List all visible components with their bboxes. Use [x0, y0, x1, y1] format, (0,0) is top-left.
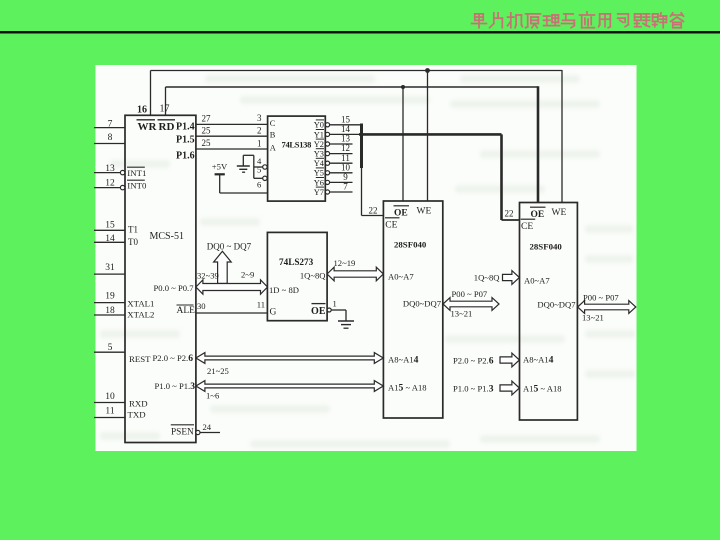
- ground G1: [242, 155, 244, 166]
- wire WR top rail: [151, 70, 563, 72]
- svg-text:A8~A14: A8~A14: [523, 355, 554, 366]
- svg-text:WE: WE: [552, 208, 567, 218]
- svg-text:30: 30: [197, 301, 206, 311]
- svg-text:T1: T1: [128, 225, 138, 235]
- svg-text:+5V: +5V: [212, 162, 228, 172]
- scanned schematic paper: [96, 65, 637, 451]
- 74LS273 U3 box: [267, 232, 327, 320]
- svg-text:5: 5: [257, 164, 261, 174]
- P0 data bus arrow: [196, 280, 268, 294]
- wire pin17 vertical: [165, 87, 167, 116]
- svg-text:XTAL2: XTAL2: [127, 310, 154, 320]
- pin 7 wire: [94, 127, 125, 129]
- svg-text:11: 11: [257, 300, 265, 310]
- svg-text:Y3: Y3: [314, 150, 324, 159]
- svg-text:P1.0 ~ P1.3: P1.0 ~ P1.3: [155, 381, 196, 392]
- svg-text:13: 13: [341, 134, 351, 144]
- svg-text:8: 8: [108, 133, 113, 143]
- wire B: [196, 135, 268, 137]
- svg-text:P1.5: P1.5: [176, 135, 195, 146]
- svg-text:14: 14: [105, 234, 115, 244]
- svg-text:Y4: Y4: [314, 159, 325, 168]
- svg-text:WR: WR: [138, 121, 158, 133]
- svg-text:DQ0~DQ7: DQ0~DQ7: [403, 299, 442, 309]
- svg-text:RXD: RXD: [129, 399, 148, 409]
- svg-text:16: 16: [137, 105, 147, 116]
- svg-text:11: 11: [105, 407, 114, 417]
- wire WE1 drop: [427, 71, 429, 202]
- svg-text:XTAL1: XTAL1: [127, 299, 154, 309]
- svg-text:P1.0 ~ P1.3: P1.0 ~ P1.3: [453, 384, 494, 395]
- svg-text:27: 27: [202, 114, 212, 124]
- svg-text:P1.6: P1.6: [176, 151, 195, 162]
- svg-text:1: 1: [257, 138, 262, 148]
- svg-text:28SF040: 28SF040: [530, 242, 563, 252]
- svg-text:24: 24: [203, 422, 212, 432]
- svg-text:13: 13: [105, 164, 115, 174]
- svg-text:TXD: TXD: [128, 410, 146, 420]
- svg-text:74LS273: 74LS273: [279, 257, 314, 267]
- svg-text:INT1: INT1: [127, 168, 146, 178]
- MCS-51 U1 box: [125, 115, 196, 442]
- pin 19 wire: [94, 302, 125, 304]
- svg-text:P2.0 ~ P2.6: P2.0 ~ P2.6: [453, 356, 494, 367]
- svg-text:3: 3: [257, 113, 262, 123]
- svg-text:P0.0 ~ P0.7: P0.0 ~ P0.7: [154, 283, 195, 293]
- pin 31 wire: [94, 273, 125, 275]
- P1 address bus arrow: [196, 381, 383, 392]
- svg-text:13~21: 13~21: [582, 313, 604, 323]
- svg-text:1Q~8Q: 1Q~8Q: [300, 270, 326, 280]
- pin 24 stub: [200, 432, 220, 434]
- svg-text:REST: REST: [129, 354, 151, 364]
- svg-text:P2.0 ~ P2.6: P2.0 ~ P2.6: [153, 353, 194, 364]
- wire Y1 to CE2: [359, 133, 502, 136]
- svg-text:P00 ~ P07: P00 ~ P07: [583, 293, 619, 303]
- svg-text:19: 19: [105, 292, 115, 302]
- svg-text:12~19: 12~19: [334, 258, 356, 268]
- svg-text:P00 ~ P07: P00 ~ P07: [452, 289, 488, 299]
- svg-text:6: 6: [257, 180, 262, 190]
- enable wiring: [243, 154, 254, 156]
- junction dot WR rail: [425, 68, 430, 73]
- 28SF040 U4 box: [383, 201, 442, 418]
- svg-text:17: 17: [160, 104, 170, 115]
- svg-text:A: A: [270, 143, 276, 152]
- INT0 pin circle: [120, 185, 124, 189]
- svg-text:OE: OE: [531, 210, 545, 220]
- svg-text:9: 9: [343, 172, 348, 182]
- wire pin16 vertical: [150, 71, 152, 116]
- junction dot RD rail: [401, 85, 405, 89]
- title underline rule: [0, 31, 720, 34]
- svg-text:31: 31: [105, 263, 115, 273]
- svg-text:Y0: Y0: [314, 121, 324, 130]
- svg-text:2~9: 2~9: [241, 269, 254, 279]
- svg-text:15: 15: [341, 114, 351, 124]
- svg-text:10: 10: [341, 162, 351, 172]
- svg-text:WE: WE: [417, 207, 432, 217]
- svg-text:21~25: 21~25: [207, 366, 229, 376]
- wire OE1 drop: [402, 87, 404, 202]
- svg-text:A0~A7: A0~A7: [388, 272, 414, 282]
- wire C: [196, 123, 268, 125]
- P2 address bus arrow: [196, 353, 383, 364]
- svg-text:OE: OE: [311, 306, 326, 317]
- svg-text:25: 25: [202, 125, 212, 135]
- svg-text:A0~A7: A0~A7: [524, 276, 550, 286]
- 28SF040 U5 box: [520, 203, 578, 421]
- 74LS138 U2 box: [268, 116, 326, 201]
- pin 10 wire: [94, 402, 125, 404]
- chip2 A0 arrow: [503, 271, 520, 285]
- wire OE2 drop: [537, 86, 540, 203]
- svg-text:7: 7: [343, 182, 348, 192]
- svg-text:RD: RD: [159, 121, 175, 133]
- DQ up arrow: [214, 251, 232, 283]
- OE273 ground wire: [331, 309, 346, 311]
- svg-text:1: 1: [333, 299, 337, 309]
- svg-text:32~39: 32~39: [197, 271, 219, 281]
- pin5 circle: [263, 176, 267, 180]
- svg-text:C: C: [270, 119, 276, 128]
- pin 15 wire: [94, 229, 125, 231]
- ALE-G wire: [196, 312, 268, 314]
- pin 12 wire: [94, 187, 120, 189]
- svg-text:A8~A14: A8~A14: [388, 355, 419, 366]
- svg-text:7: 7: [108, 120, 113, 130]
- svg-text:74LS138: 74LS138: [282, 139, 312, 149]
- svg-text:1D ~ 8D: 1D ~ 8D: [269, 285, 299, 295]
- svg-text:5: 5: [108, 343, 113, 353]
- INT1 pin circle: [120, 170, 124, 174]
- ghost bleedthrough: [100, 75, 635, 448]
- chip1 DQ bus stub: [443, 298, 499, 311]
- svg-text:18: 18: [105, 306, 115, 316]
- pin 13 wire: [94, 172, 120, 174]
- svg-text:25: 25: [202, 138, 212, 148]
- chip2 A8 arrow: [500, 353, 519, 367]
- title text (Chinese): [475, 13, 483, 15]
- svg-text:Y6: Y6: [314, 178, 324, 187]
- svg-text:13~21: 13~21: [451, 309, 473, 319]
- svg-text:DQ0~DQ7: DQ0~DQ7: [537, 300, 576, 310]
- svg-text:11: 11: [341, 153, 350, 163]
- svg-text:22: 22: [505, 209, 514, 219]
- wire Y0 to CE1: [360, 124, 363, 169]
- pin 8 wire: [94, 143, 125, 145]
- chip2 DQ bus stub: [578, 301, 636, 314]
- wire A: [196, 148, 268, 150]
- pin 5 wire: [94, 351, 125, 353]
- svg-text:INT0: INT0: [127, 181, 147, 191]
- svg-text:OE: OE: [394, 209, 408, 219]
- svg-text:A15 ~ A18: A15 ~ A18: [388, 383, 427, 394]
- pin 11 wire: [94, 417, 125, 419]
- svg-text:15: 15: [105, 221, 115, 231]
- svg-text:P1.4: P1.4: [176, 122, 195, 133]
- pin4 circle: [263, 165, 267, 169]
- svg-text:DQ0 ~ DQ7: DQ0 ~ DQ7: [207, 242, 252, 252]
- svg-text:14: 14: [341, 124, 351, 134]
- svg-text:CE: CE: [521, 222, 533, 232]
- svg-text:28SF040: 28SF040: [394, 240, 427, 250]
- pin 18 wire: [94, 314, 125, 316]
- svg-text:12: 12: [341, 143, 350, 153]
- svg-text:PSEN: PSEN: [171, 428, 194, 438]
- svg-text:Y5: Y5: [314, 169, 324, 178]
- svg-text:CE: CE: [385, 221, 397, 231]
- svg-text:12: 12: [105, 179, 115, 189]
- wire RD rail: [166, 86, 539, 88]
- svg-text:10: 10: [105, 392, 115, 402]
- svg-text:Y2: Y2: [314, 140, 324, 149]
- svg-text:22: 22: [369, 206, 378, 216]
- wire WE2 drop: [561, 70, 563, 203]
- OE273 circle: [327, 308, 331, 312]
- PSEN pin circle: [196, 430, 200, 434]
- svg-text:Y7: Y7: [314, 188, 324, 197]
- svg-text:1~6: 1~6: [206, 391, 220, 401]
- pin 14 wire: [94, 241, 125, 243]
- svg-text:T0: T0: [128, 237, 138, 247]
- svg-text:Y1: Y1: [314, 130, 324, 139]
- svg-text:MCS-51: MCS-51: [150, 231, 184, 242]
- 1Q-8Q bus arrow: [327, 267, 383, 281]
- chip2 A15 arrow: [500, 381, 519, 395]
- svg-text:A15 ~ A18: A15 ~ A18: [523, 384, 562, 395]
- svg-text:B: B: [270, 130, 276, 139]
- svg-text:1Q~8Q: 1Q~8Q: [474, 273, 500, 283]
- svg-text:ALE: ALE: [177, 306, 196, 316]
- svg-text:2: 2: [257, 125, 262, 135]
- svg-text:G: G: [270, 308, 277, 318]
- ground G2: [338, 320, 354, 322]
